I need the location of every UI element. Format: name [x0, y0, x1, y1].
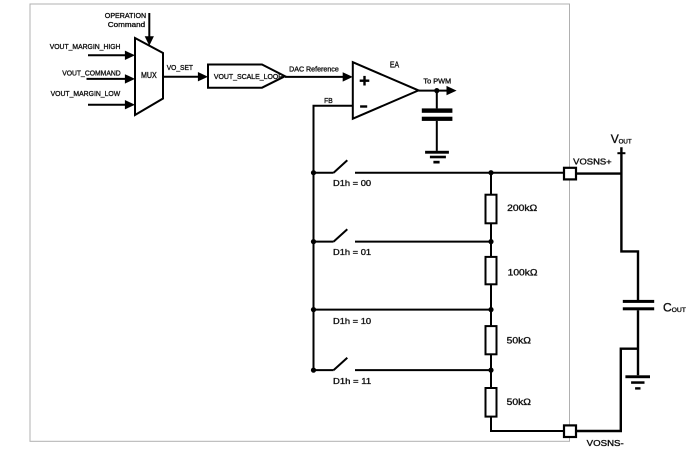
svg-text:50kΩ: 50kΩ — [507, 336, 531, 346]
svg-text:VOUT_SCALE_LOOP: VOUT_SCALE_LOOP — [214, 72, 283, 81]
svg-text:VOUT_COMMAND: VOUT_COMMAND — [62, 68, 121, 77]
svg-text:VOUT_MARGIN_LOW: VOUT_MARGIN_LOW — [51, 89, 121, 98]
svg-text:D1h = 01: D1h = 01 — [333, 247, 371, 257]
svg-text:50kΩ: 50kΩ — [507, 397, 531, 407]
svg-text:MUX: MUX — [141, 71, 157, 80]
svg-text:100kΩ: 100kΩ — [508, 267, 538, 277]
svg-text:OUT: OUT — [619, 138, 632, 145]
svg-text:To PWM: To PWM — [423, 77, 451, 86]
svg-text:D1h = 00: D1h = 00 — [333, 178, 371, 188]
svg-text:200kΩ: 200kΩ — [507, 203, 537, 213]
svg-text:VOSNS-: VOSNS- — [587, 438, 624, 448]
svg-text:VOSNS+: VOSNS+ — [573, 156, 612, 166]
svg-text:VO_SET: VO_SET — [167, 63, 194, 72]
svg-text:D1h = 10: D1h = 10 — [333, 316, 371, 326]
svg-text:FB: FB — [324, 96, 333, 105]
svg-text:DAC Reference: DAC Reference — [289, 65, 339, 74]
svg-text:D1h = 11: D1h = 11 — [333, 376, 371, 386]
svg-text:OUT: OUT — [672, 307, 686, 314]
svg-text:VOUT_MARGIN_HIGH: VOUT_MARGIN_HIGH — [50, 42, 121, 51]
svg-text:EA: EA — [390, 60, 400, 69]
svg-text:Command: Command — [108, 20, 145, 29]
